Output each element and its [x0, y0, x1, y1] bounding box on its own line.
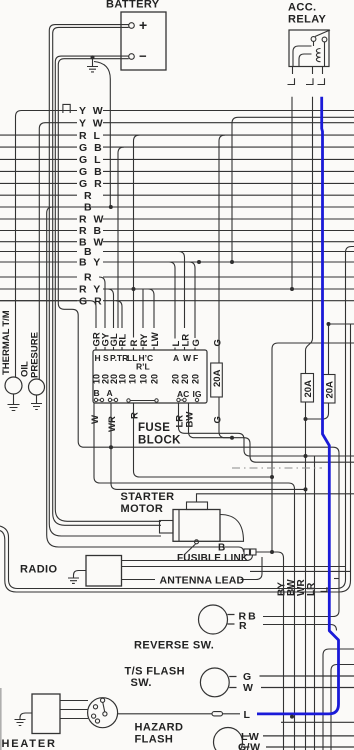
svg-text:G R: G R	[79, 178, 104, 190]
svg-text:B: B	[94, 388, 100, 398]
svg-text:RADIO: RADIO	[20, 564, 57, 576]
svg-text:T/S FLASH: T/S FLASH	[125, 666, 185, 678]
svg-text:BW: BW	[185, 412, 196, 428]
svg-text:MOTOR: MOTOR	[121, 503, 164, 515]
svg-text:HAZARD: HAZARD	[135, 722, 184, 734]
svg-text:ACC.: ACC.	[288, 2, 317, 14]
svg-text:R: R	[84, 272, 94, 284]
svg-text:A: A	[107, 388, 113, 398]
svg-text:R: R	[130, 412, 141, 419]
svg-text:R L: R L	[79, 130, 102, 142]
svg-text:R B: R B	[79, 225, 103, 237]
svg-text:G: G	[191, 339, 202, 346]
svg-text:F: F	[193, 353, 198, 363]
svg-text:20A: 20A	[212, 369, 223, 387]
svg-text:G B: G B	[79, 166, 104, 178]
svg-text:RELAY: RELAY	[288, 14, 327, 26]
svg-text:PRESURE: PRESURE	[30, 332, 41, 378]
svg-text:SW.: SW.	[131, 677, 152, 689]
svg-text:Y W: Y W	[79, 105, 105, 117]
svg-text:R W: R W	[79, 214, 105, 226]
svg-text:THERMAL T/M: THERMAL T/M	[1, 310, 12, 375]
svg-text:20A: 20A	[303, 380, 314, 398]
svg-text:W: W	[243, 682, 255, 694]
svg-text:STARTER: STARTER	[121, 491, 175, 503]
svg-text:ANTENNA LEAD: ANTENNA LEAD	[160, 575, 245, 587]
svg-text:REVERSE SW.: REVERSE SW.	[134, 640, 214, 652]
svg-text:Y W: Y W	[79, 117, 105, 129]
svg-text:AC: AC	[177, 389, 189, 399]
svg-text:20: 20	[180, 374, 190, 384]
svg-text:G/W: G/W	[238, 742, 261, 750]
svg-text:FUSE: FUSE	[138, 422, 170, 434]
svg-text:W: W	[183, 353, 192, 363]
svg-text:R Y: R Y	[79, 284, 102, 296]
svg-text:H: H	[95, 353, 101, 363]
svg-text:20: 20	[171, 374, 181, 384]
svg-text:10: 10	[118, 374, 128, 384]
svg-text:RY: RY	[139, 333, 150, 347]
svg-text:HEATER: HEATER	[2, 738, 57, 750]
svg-text:10: 10	[128, 374, 138, 384]
svg-text:G L: G L	[79, 154, 103, 166]
svg-text:G B: G B	[79, 142, 104, 154]
svg-text:B: B	[218, 543, 225, 554]
svg-text:FUSIBLE LINK: FUSIBLE LINK	[177, 553, 249, 564]
svg-text:A: A	[173, 353, 179, 363]
svg-text:B: B	[84, 202, 94, 214]
svg-text:S: S	[103, 353, 109, 363]
svg-text:G: G	[213, 339, 224, 346]
svg-text:R: R	[84, 190, 94, 202]
svg-text:W: W	[90, 415, 101, 424]
svg-text:B Y: B Y	[79, 257, 102, 269]
svg-text:IG: IG	[193, 389, 202, 399]
svg-text:10: 10	[139, 374, 149, 384]
svg-text:BATTERY: BATTERY	[106, 0, 160, 11]
svg-text:R: R	[239, 620, 249, 632]
svg-text:20: 20	[191, 374, 201, 384]
svg-text:20: 20	[150, 374, 160, 384]
svg-text:RL: RL	[118, 334, 129, 347]
svg-text:R’L: R’L	[136, 362, 150, 372]
svg-text:G: G	[213, 416, 224, 423]
svg-text:20A: 20A	[325, 381, 336, 399]
svg-text:BLOCK: BLOCK	[138, 435, 181, 447]
svg-text:FLASH: FLASH	[135, 734, 174, 746]
svg-text:P.TR: P.TR	[110, 353, 128, 363]
svg-text:WR: WR	[107, 416, 118, 432]
svg-text:LR: LR	[181, 334, 192, 347]
svg-text:−: −	[139, 49, 147, 64]
svg-text:+: +	[139, 17, 147, 33]
svg-text:LW: LW	[150, 332, 161, 346]
svg-text:L: L	[244, 709, 252, 721]
svg-text:G R: G R	[79, 295, 104, 307]
